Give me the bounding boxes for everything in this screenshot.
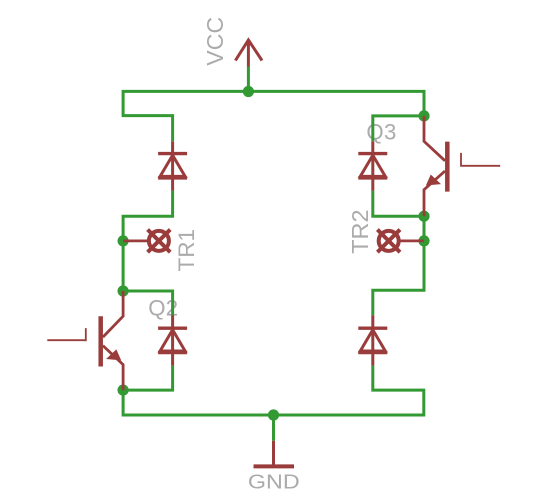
- wire: right diode D2 bottom to Q3 emitter node down to diode D4 top: [373, 191, 424, 315]
- lamp TR2: [377, 230, 424, 253]
- transistor Q3 (NPN, upper right, mirrored): [424, 116, 500, 216]
- wire: GND stem (green part): [272, 415, 275, 441]
- wire: left diode D1 bottom to TR1/Q2 column down to diode D3 top: [123, 191, 173, 315]
- junction: TR2 node: [418, 235, 429, 246]
- ground GND symbol: [254, 441, 295, 467]
- svg-text:GND: GND: [248, 471, 300, 494]
- junction: Q2 collector node: [118, 285, 129, 296]
- junction: GND node on bottom rail: [268, 409, 279, 420]
- svg-text:Q3: Q3: [366, 120, 396, 145]
- junction: Q3 collector node: [418, 110, 429, 121]
- svg-text:TR1: TR1: [174, 229, 199, 272]
- junction: Q2 emitter node: [118, 385, 129, 396]
- svg-text:TR2: TR2: [347, 209, 373, 253]
- junction: TR1 node: [118, 235, 129, 246]
- wire: bottom rail from D3 bottom, Q2 emitter node, GND node, right corner to D4 bottom: [123, 366, 424, 415]
- lamp TR1: [123, 230, 170, 253]
- wire: top rail with left/right drops: [123, 91, 424, 141]
- junction: Q3 emitter node: [418, 211, 429, 222]
- diode D2 (upper right): [358, 141, 387, 191]
- transistor Q2 (NPN, lower left): [47, 291, 123, 390]
- diode D3 (lower left): [158, 315, 187, 365]
- diode D4 (lower right): [358, 315, 387, 365]
- supply VCC symbol (arrow): [235, 40, 262, 67]
- diode D1 (upper left): [158, 141, 187, 191]
- wire: VCC stem (green part): [247, 66, 250, 91]
- junction: VCC node on top rail: [243, 86, 254, 97]
- svg-text:VCC: VCC: [202, 17, 228, 66]
